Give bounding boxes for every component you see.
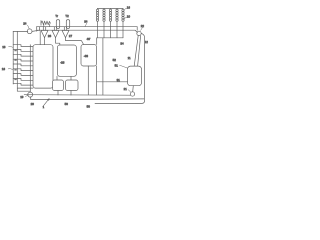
solenoid T2 (oval) [65,14,69,29]
svg-text:21: 21 [124,87,128,91]
wire: ladder rung 1 [13,45,33,47]
svg-text:52: 52 [113,58,117,62]
amplifier 27 (triangle) [62,30,69,37]
wire: heater top bus [98,7,124,9]
label 24 [23,22,29,29]
wire: long drop from heater bus to bottom line [102,38,104,95]
wire: ladder rung 4 [13,59,33,61]
wire: amp 26 output to block 28 [56,38,60,45]
terminal 21 (circle) [130,92,134,96]
svg-text:10: 10 [127,14,131,18]
amplifier 27 (triangle) input stubs [64,27,66,31]
svg-text:-33: -33 [84,54,89,58]
wire: block 12 to terminal 21 [132,86,135,92]
label 18 upper with leader [2,45,13,49]
svg-text:T2: T2 [65,14,69,18]
label 10 with leader [124,14,131,19]
block 30 (tall control block) [33,45,53,88]
contact blob rung4 [14,59,16,60]
svg-text:50: 50 [65,102,69,106]
block 32 (small left) [52,80,63,91]
wire: ladder rung 8 [13,78,33,80]
svg-text:24: 24 [23,22,27,26]
amplifier 25 (triangle) [41,30,48,37]
generator 19 (circle on wire) [28,92,33,97]
wire: node 24 to bus junction [32,30,39,31]
resistor bank R5 [122,8,124,37]
svg-text:22: 22 [141,24,145,28]
wire: block 36 to bottom line [70,90,72,95]
figure pointer arrow 1 [43,99,50,109]
block 28 (processor) [57,45,76,76]
svg-text:16: 16 [127,5,131,9]
solenoid Tr (oval) [55,14,59,29]
wire: stub joining bus1 and bus2 [37,27,40,32]
wire: bottom bus corner into block 40' [96,38,98,95]
wire: ladder rung 7 [13,74,33,76]
contact blob rung6 [14,69,16,70]
svg-text:20: 20 [31,102,35,106]
wire: left border rail [12,31,14,84]
wire: bottom line B [31,98,144,101]
wire: top bus 1 [37,26,138,28]
svg-text:19: 19 [20,95,24,99]
wire: drop from node-24 wire to block 30 top [39,31,41,44]
wire: inner left rail with bottom edge [17,31,30,91]
contact blob rung2 [14,50,16,51]
wire: amp 25 output to block 30 [44,38,46,45]
wire: block 40' bottom riser [87,66,89,95]
svg-text:12: 12 [145,40,149,44]
amplifier 26 (triangle) input stubs [54,27,56,31]
resistor bank R3 [110,8,112,37]
amplifier 26 (triangle) [52,30,59,37]
wire: ladder rung 3 [13,54,33,56]
svg-text:31: 31 [117,78,121,82]
wire: left feed wire to node 24 [13,30,28,32]
wire: ladder rung 5 [13,64,33,66]
block 36 (small right) [65,80,78,91]
svg-text:11: 11 [128,56,131,60]
wire: generator 19 bottom stub [30,97,32,100]
wire: block 32 to bottom line [57,90,59,95]
wire: rail into generator 19 [29,45,31,93]
wire: right border rail [95,33,145,103]
svg-text:1: 1 [43,105,45,109]
svg-text:18: 18 [2,45,6,49]
label 16 with leader [124,5,131,10]
wire: amp 27 output to block 40' [66,38,84,45]
node 24 (circle terminal) [27,29,32,34]
wire: bus1 stub to terminal 22 [136,27,138,31]
resistor 40 (horizontal zigzag with end tick) [41,21,50,27]
svg-text:40': 40' [87,37,91,41]
block 12 (right actuator) [127,66,141,86]
wire: block 28 to block 36 [70,76,72,80]
wire: drop line to block 12 [97,81,128,83]
svg-text:-28: -28 [60,60,65,64]
wire: ladder rung 2 [13,49,33,51]
block 40' [81,45,97,67]
svg-text:27: 27 [69,34,73,38]
wire: terminal 22 down to block 12 (pair) [134,36,140,67]
label 51 with leader [115,63,128,68]
wire: block 28 to block 32 [56,76,58,80]
wire: ladder rung 6 [13,69,33,71]
wire: bottom line A [24,94,130,97]
wire: ladder rung 9 [13,83,33,85]
label 21 with leader [124,87,131,92]
resistor bank R1 [97,8,99,37]
svg-text:50: 50 [87,104,91,108]
svg-text:51: 51 [115,63,119,67]
svg-text:Tr: Tr [55,14,58,18]
resistor bank R2 [103,8,105,37]
svg-text:26: 26 [48,34,52,38]
wire: bus 2 [37,30,138,32]
amplifier 25 (triangle) input stubs [43,27,45,31]
label 19 with leader [20,95,28,99]
contact blob rung8 [14,79,16,80]
label 22 with leader [141,24,145,31]
terminal 22 (circle) [137,31,141,35]
svg-text:18: 18 [2,67,6,71]
svg-text:34: 34 [84,19,88,23]
label 18 lower with leader [2,67,13,71]
wire: heater bottom bus [97,37,123,39]
svg-text:34: 34 [120,41,124,45]
label 34 on bus with leader [84,19,88,26]
resistor bank R4 [116,8,118,37]
wire: ladder rung 10 [17,87,33,89]
